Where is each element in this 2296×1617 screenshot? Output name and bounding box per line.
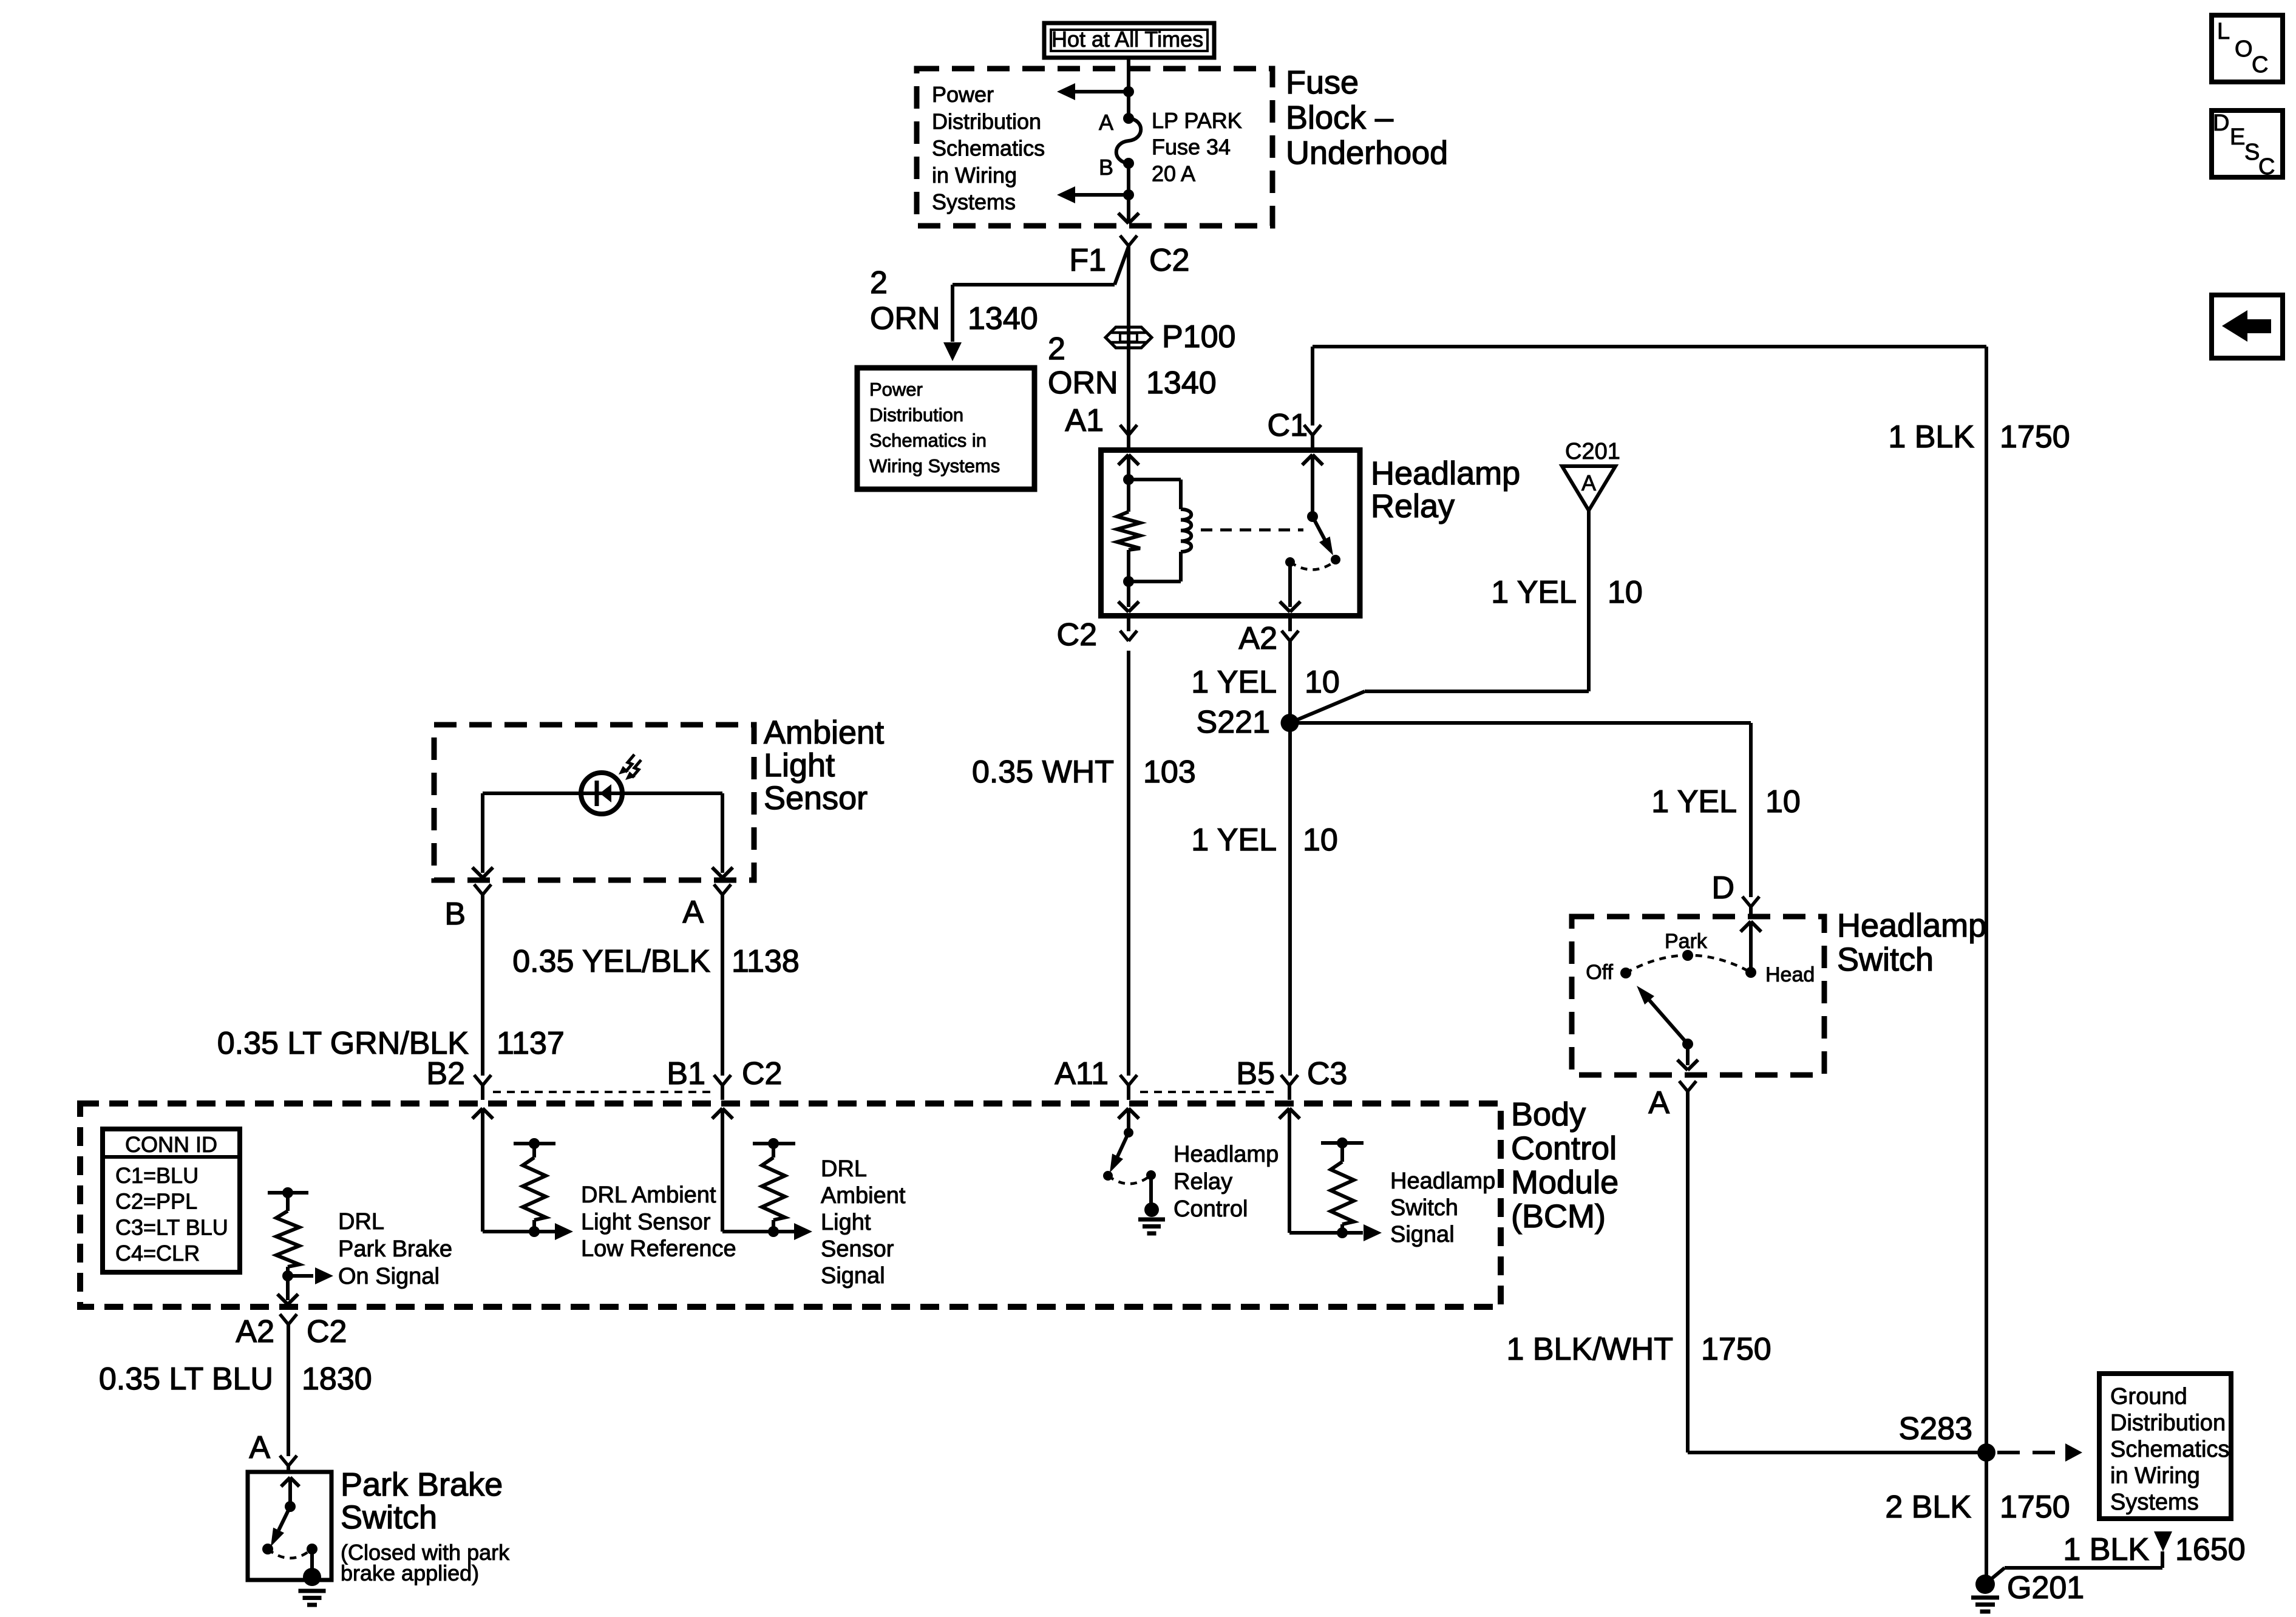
svg-text:Headlamp: Headlamp: [1173, 1142, 1279, 1167]
svg-text:1 YEL: 1 YEL: [1191, 822, 1277, 858]
svg-text:1650: 1650: [2175, 1532, 2246, 1567]
svg-text:Distribution: Distribution: [2110, 1411, 2226, 1436]
svg-text:20 A: 20 A: [1152, 161, 1195, 186]
svg-text:LP PARK: LP PARK: [1152, 108, 1242, 133]
svg-text:1138: 1138: [732, 944, 800, 979]
svg-text:Fuse 34: Fuse 34: [1152, 135, 1231, 160]
svg-text:(BCM): (BCM): [1511, 1198, 1606, 1235]
svg-text:CONN ID: CONN ID: [125, 1132, 217, 1157]
svg-text:A11: A11: [1055, 1056, 1109, 1091]
svg-text:C4=CLR: C4=CLR: [115, 1241, 200, 1266]
svg-text:Systems: Systems: [2110, 1490, 2199, 1515]
svg-text:Power: Power: [932, 82, 994, 107]
svg-text:in Wiring: in Wiring: [2110, 1463, 2200, 1489]
svg-text:DRL: DRL: [338, 1209, 384, 1235]
svg-text:Fuse: Fuse: [1286, 64, 1359, 101]
svg-text:in Wiring: in Wiring: [932, 163, 1017, 188]
svg-text:A2: A2: [236, 1314, 274, 1349]
svg-text:Headlamp: Headlamp: [1371, 455, 1520, 492]
svg-text:Headlamp: Headlamp: [1837, 907, 1986, 944]
svg-text:1 BLK: 1 BLK: [1888, 419, 1974, 455]
svg-text:O: O: [2235, 36, 2253, 62]
svg-text:Body: Body: [1511, 1096, 1586, 1133]
svg-text:Control: Control: [1173, 1196, 1248, 1222]
svg-text:Headlamp: Headlamp: [1390, 1168, 1495, 1194]
svg-text:1340: 1340: [968, 301, 1038, 336]
svg-text:A: A: [249, 1430, 270, 1465]
svg-text:1830: 1830: [302, 1361, 372, 1397]
svg-text:C2=PPL: C2=PPL: [115, 1189, 197, 1214]
svg-text:1340: 1340: [1146, 365, 1217, 401]
svg-text:10: 10: [1608, 575, 1643, 610]
svg-text:Underhood: Underhood: [1286, 135, 1448, 171]
svg-text:G201: G201: [2007, 1570, 2084, 1605]
svg-text:1 YEL: 1 YEL: [1651, 784, 1737, 819]
svg-text:1 YEL: 1 YEL: [1191, 665, 1277, 700]
svg-text:Signal: Signal: [821, 1263, 885, 1289]
svg-text:Schematics: Schematics: [2110, 1437, 2229, 1462]
svg-text:A: A: [1648, 1085, 1669, 1120]
svg-text:103: 103: [1143, 754, 1196, 790]
svg-text:1 BLK: 1 BLK: [2063, 1532, 2149, 1567]
svg-text:brake applied): brake applied): [341, 1561, 479, 1585]
svg-text:Relay: Relay: [1371, 488, 1455, 524]
svg-text:Ambient: Ambient: [764, 714, 884, 751]
svg-text:Sensor: Sensor: [764, 780, 868, 816]
svg-text:0.35 LT BLU: 0.35 LT BLU: [99, 1361, 273, 1397]
svg-text:Park Brake: Park Brake: [338, 1236, 452, 1262]
svg-text:Ground: Ground: [2110, 1384, 2187, 1409]
svg-text:1750: 1750: [1701, 1332, 1771, 1367]
svg-text:B: B: [444, 897, 466, 932]
svg-text:B5: B5: [1236, 1056, 1275, 1091]
svg-text:S283: S283: [1899, 1411, 1972, 1446]
svg-text:C2: C2: [307, 1314, 347, 1349]
svg-text:A: A: [682, 895, 704, 930]
svg-text:0.35 YEL/BLK: 0.35 YEL/BLK: [512, 944, 710, 979]
svg-text:Relay: Relay: [1173, 1169, 1232, 1195]
svg-text:10: 10: [1765, 784, 1801, 819]
svg-text:Switch: Switch: [1837, 941, 1934, 978]
svg-text:Signal: Signal: [1390, 1222, 1455, 1247]
svg-text:Ambient: Ambient: [821, 1183, 906, 1209]
svg-text:Low Reference: Low Reference: [581, 1236, 736, 1262]
svg-text:Block –: Block –: [1286, 100, 1393, 136]
svg-text:1137: 1137: [497, 1026, 565, 1061]
svg-text:Off: Off: [1586, 961, 1613, 984]
svg-text:Schematics: Schematics: [932, 136, 1045, 161]
svg-text:Switch: Switch: [341, 1499, 437, 1536]
svg-text:Schematics in: Schematics in: [869, 430, 987, 451]
svg-text:0.35 WHT: 0.35 WHT: [972, 754, 1114, 790]
svg-text:C3=LT BLU: C3=LT BLU: [115, 1215, 228, 1239]
svg-text:C2: C2: [742, 1056, 782, 1091]
svg-text:C1: C1: [1268, 408, 1308, 443]
svg-text:Switch: Switch: [1390, 1195, 1458, 1221]
svg-text:DRL Ambient: DRL Ambient: [581, 1182, 716, 1208]
svg-text:1 YEL: 1 YEL: [1491, 575, 1577, 610]
svg-text:Module: Module: [1511, 1164, 1618, 1201]
svg-text:1750: 1750: [2000, 1490, 2070, 1525]
svg-text:Systems: Systems: [932, 189, 1016, 214]
svg-text:D: D: [2213, 110, 2229, 136]
svg-text:10: 10: [1303, 822, 1338, 858]
svg-text:C2: C2: [1057, 617, 1097, 653]
svg-text:Distribution: Distribution: [932, 109, 1041, 134]
svg-text:Head: Head: [1765, 963, 1815, 986]
svg-text:S221: S221: [1197, 705, 1270, 740]
svg-text:B1: B1: [667, 1056, 705, 1091]
svg-text:A: A: [1099, 110, 1113, 135]
svg-text:Wiring Systems: Wiring Systems: [869, 455, 1000, 476]
svg-text:Light: Light: [821, 1210, 871, 1235]
svg-text:Control: Control: [1511, 1130, 1617, 1167]
svg-text:C2: C2: [1149, 243, 1189, 278]
svg-text:C: C: [2258, 154, 2275, 180]
svg-text:Park Brake: Park Brake: [341, 1466, 503, 1503]
svg-text:C3: C3: [1307, 1056, 1347, 1091]
svg-text:A2: A2: [1238, 621, 1277, 656]
svg-text:Power: Power: [869, 379, 923, 400]
svg-text:2: 2: [1048, 331, 1065, 367]
svg-text:L: L: [2217, 19, 2230, 44]
svg-text:S: S: [2244, 140, 2260, 165]
svg-text:ORN: ORN: [1048, 365, 1118, 401]
svg-text:B: B: [1099, 155, 1113, 180]
svg-text:Sensor: Sensor: [821, 1236, 894, 1262]
svg-text:DRL: DRL: [821, 1156, 867, 1182]
svg-text:Park: Park: [1665, 930, 1708, 953]
svg-text:P100: P100: [1162, 319, 1235, 354]
svg-text:On Signal: On Signal: [338, 1264, 440, 1289]
svg-text:ORN: ORN: [870, 301, 940, 336]
svg-text:C: C: [2252, 52, 2268, 78]
svg-text:Hot at All Times: Hot at All Times: [1051, 27, 1203, 52]
svg-text:2: 2: [870, 265, 888, 300]
svg-text:2 BLK: 2 BLK: [1885, 1490, 1971, 1525]
svg-text:C201: C201: [1565, 439, 1620, 464]
svg-text:C1=BLU: C1=BLU: [115, 1163, 199, 1188]
svg-text:F1: F1: [1069, 243, 1106, 278]
svg-text:Light: Light: [764, 747, 835, 784]
svg-text:A1: A1: [1065, 403, 1104, 438]
svg-text:Light Sensor: Light Sensor: [581, 1209, 711, 1235]
svg-text:1750: 1750: [2000, 419, 2070, 455]
svg-text:D: D: [1711, 870, 1734, 906]
svg-text:A: A: [1581, 470, 1596, 495]
svg-text:Distribution: Distribution: [869, 404, 963, 425]
svg-text:10: 10: [1305, 665, 1340, 700]
svg-text:1 BLK/WHT: 1 BLK/WHT: [1507, 1332, 1674, 1367]
svg-text:B2: B2: [426, 1056, 465, 1091]
svg-text:E: E: [2230, 124, 2245, 150]
